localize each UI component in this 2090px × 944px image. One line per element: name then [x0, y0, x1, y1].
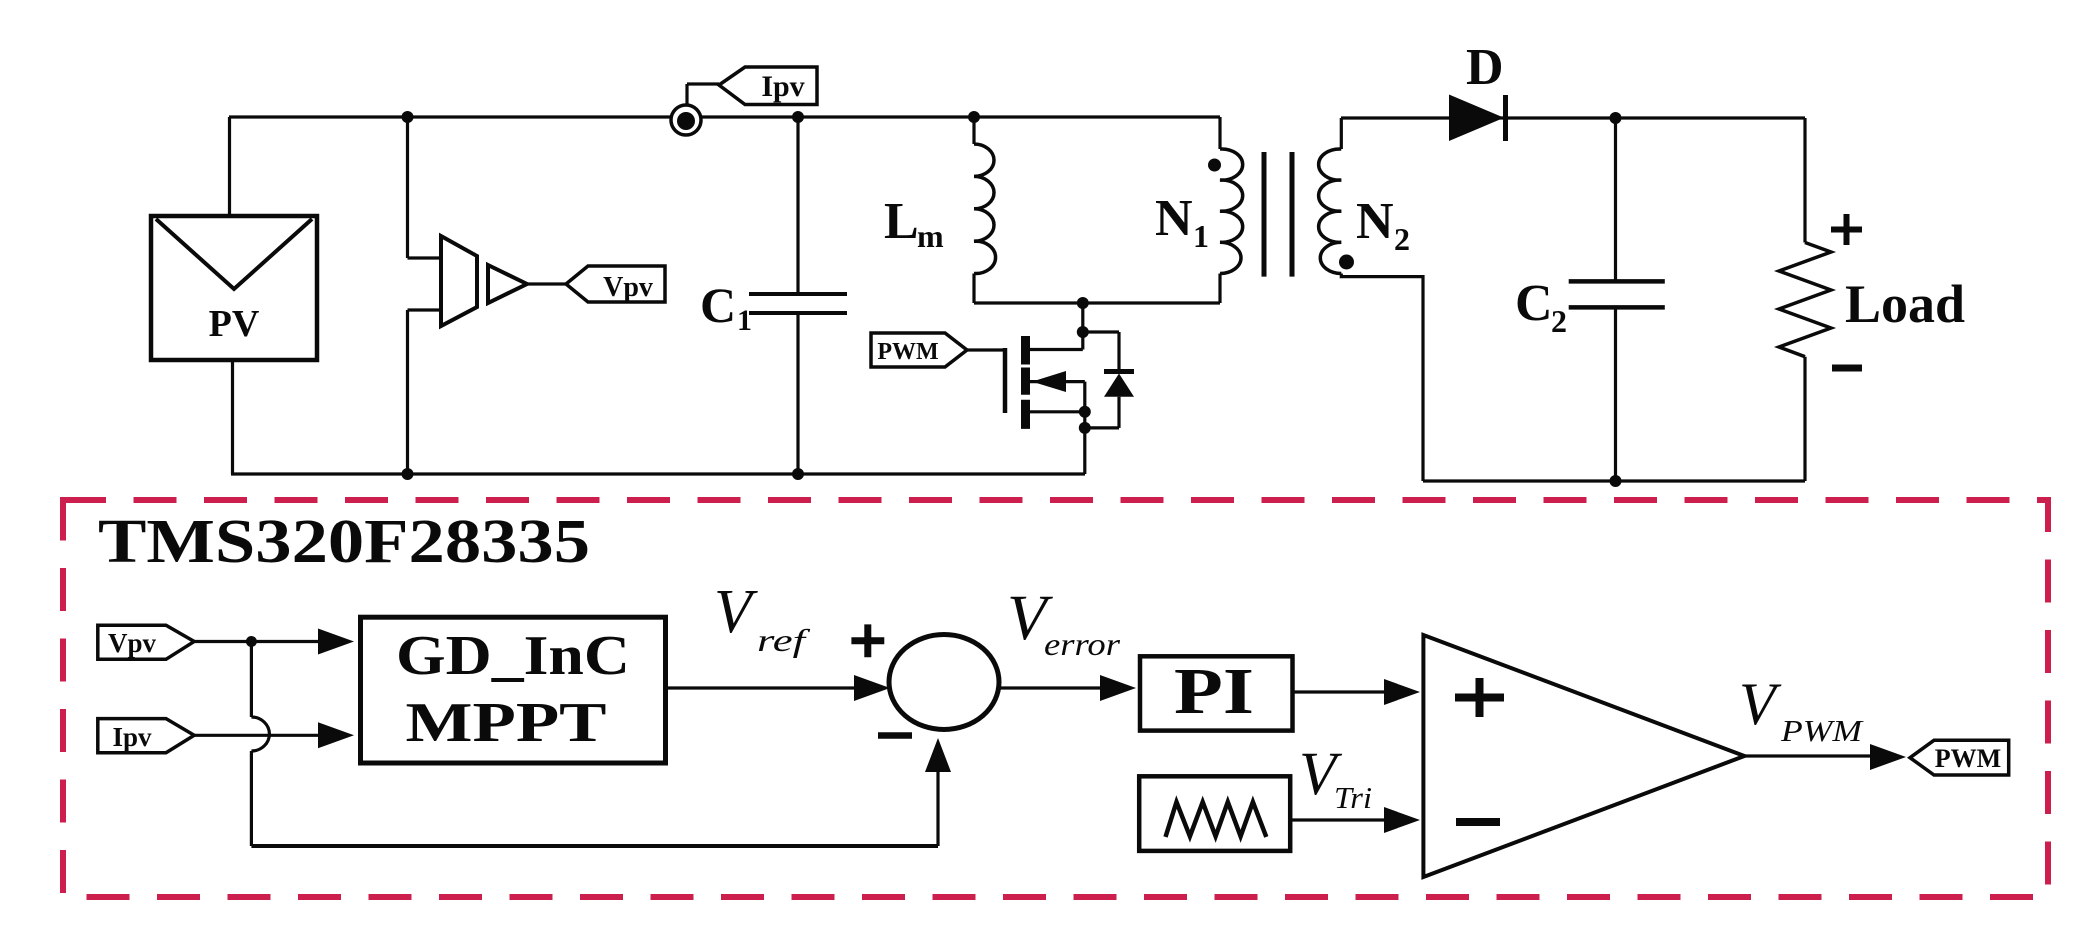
svg-text:TMS320F28335: TMS320F28335: [98, 508, 590, 576]
svg-text:error: error: [1044, 626, 1121, 662]
svg-text:Load: Load: [1845, 274, 1965, 334]
svg-text:PWM: PWM: [1935, 744, 2001, 773]
svg-text:Ipv: Ipv: [761, 70, 804, 103]
svg-text:N: N: [1155, 190, 1193, 247]
svg-text:PWM: PWM: [877, 339, 938, 365]
svg-text:N: N: [1356, 193, 1394, 250]
svg-text:C: C: [1515, 275, 1553, 332]
svg-text:PV: PV: [209, 303, 260, 345]
svg-text:V: V: [714, 578, 758, 646]
svg-text:C: C: [700, 277, 736, 333]
svg-text:PI: PI: [1174, 655, 1254, 728]
svg-text:Vpv: Vpv: [108, 628, 157, 658]
svg-text:2: 2: [1551, 303, 1567, 339]
svg-text:PWM: PWM: [1780, 713, 1865, 748]
svg-text:Tri: Tri: [1334, 780, 1372, 815]
svg-text:Ipv: Ipv: [112, 722, 152, 752]
svg-text:GD_InC: GD_InC: [396, 625, 630, 687]
svg-text:V: V: [1739, 671, 1782, 737]
svg-text:2: 2: [1394, 221, 1410, 257]
svg-text:1: 1: [737, 304, 752, 337]
svg-text:ref: ref: [757, 622, 811, 658]
svg-text:Vpv: Vpv: [603, 272, 653, 303]
svg-text:1: 1: [1193, 218, 1209, 254]
svg-text:D: D: [1466, 39, 1504, 96]
svg-text:MPPT: MPPT: [406, 692, 607, 754]
svg-text:m: m: [917, 218, 944, 254]
svg-text:L: L: [884, 193, 919, 250]
